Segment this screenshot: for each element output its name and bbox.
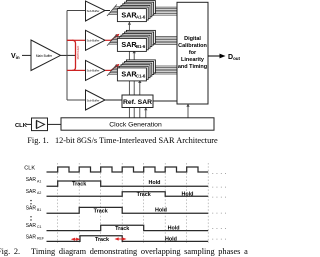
svg-text:Hold: Hold <box>182 191 194 197</box>
op-amp sub-buffer 2 <box>86 30 106 50</box>
wire to sub-buffer 1 <box>67 10 86 12</box>
svg-text:SAR: SAR <box>121 40 137 49</box>
svg-text:CLK: CLK <box>24 165 35 171</box>
svg-text:Track: Track <box>72 182 86 188</box>
svg-text:CLK: CLK <box>15 123 28 129</box>
waveform CLK <box>47 167 209 172</box>
SAR bank A stack <box>117 1 155 22</box>
clock wire to calibration <box>187 104 189 118</box>
wire Vin to main buffer <box>22 54 31 56</box>
wire red stub to sub-buffer 3 <box>72 69 86 71</box>
wire CLK to buffer <box>26 123 32 125</box>
waveform SAR C1 <box>47 225 209 230</box>
svg-text:B1: B1 <box>37 208 41 212</box>
waveform SAR A1 <box>47 181 209 186</box>
svg-text:SAR: SAR <box>121 70 137 79</box>
svg-text:and Timing: and Timing <box>178 64 207 70</box>
wire outputs stack B to calibration <box>146 36 177 44</box>
svg-text:Track: Track <box>115 226 129 232</box>
svg-text:Clock Generation: Clock Generation <box>109 122 162 129</box>
svg-text:Dout: Dout <box>228 54 241 61</box>
svg-text:Fig. 1. 12-bit 8GS/s Time-In: Fig. 1. 12-bit 8GS/s Time-Interleaved SA… <box>27 136 218 145</box>
svg-text:Linearity: Linearity <box>181 57 205 63</box>
svg-text:Hold: Hold <box>149 180 161 186</box>
svg-text:SAR: SAR <box>26 189 37 195</box>
svg-text:SAR: SAR <box>26 206 37 212</box>
svg-text:Fig. 2. Timing diagram demon: Fig. 2. Timing diagram demonstrating ove… <box>0 247 248 256</box>
svg-text:....: .... <box>212 210 229 216</box>
SAR bank C stack <box>117 60 155 81</box>
clock distribution wire to SAR B <box>133 51 135 118</box>
clock distribution wire to SAR C <box>139 80 141 117</box>
svg-text:....: .... <box>212 225 229 231</box>
op-amp sub-buffer 1 <box>86 1 106 21</box>
red timing arrow 1 <box>71 238 80 241</box>
svg-text:....: .... <box>212 236 229 242</box>
svg-text:SAR: SAR <box>26 234 37 240</box>
svg-text:Sub-Buffer: Sub-Buffer <box>87 98 100 102</box>
wire Ref SAR output <box>153 100 177 102</box>
svg-text:Digital: Digital <box>184 36 201 42</box>
red timing arrow 2 <box>115 237 127 240</box>
svg-text:A1-6: A1-6 <box>136 14 146 19</box>
svg-text:....: .... <box>212 170 229 176</box>
svg-text:for: for <box>189 50 197 56</box>
svg-text:Hold: Hold <box>155 208 167 214</box>
svg-text:C1: C1 <box>37 225 42 229</box>
waveform SAR A2 <box>47 192 209 196</box>
vertical ellipsis 1 <box>30 200 31 201</box>
wire sub-buffer2 to stack B (red arrow) <box>105 39 111 41</box>
vertical ellipsis 2 <box>30 216 31 217</box>
svg-text:Track: Track <box>94 208 108 214</box>
svg-text:C1-6: C1-6 <box>136 74 146 79</box>
digital calibration box U1 <box>177 2 208 104</box>
wire outputs stack A to calibration <box>146 7 177 15</box>
waveform SAR REF <box>47 236 209 242</box>
wire main buffer output <box>61 54 76 56</box>
SAR bank B stack <box>117 30 155 51</box>
svg-text:Ref. SAR: Ref. SAR <box>123 99 152 106</box>
svg-text:A1: A1 <box>37 179 41 183</box>
wire to sub-buffer 4 <box>67 99 86 101</box>
svg-text:A2: A2 <box>37 191 41 195</box>
svg-text:Track: Track <box>137 192 151 198</box>
svg-text:Sub-Buffer: Sub-Buffer <box>87 69 100 73</box>
wire fan into stack C <box>107 64 126 76</box>
wire outputs stack C to calibration <box>146 66 177 74</box>
clock distribution wire to SAR A <box>128 22 130 118</box>
waveform SAR B1 <box>47 207 209 213</box>
wire fan into stack A <box>107 5 126 17</box>
wire buffer to clock gen <box>48 123 62 125</box>
svg-text:....: .... <box>212 194 229 200</box>
clock generation box <box>61 118 214 130</box>
wire red critical route <box>67 40 76 70</box>
svg-text:REF: REF <box>37 237 44 241</box>
op-amp main buffer <box>31 40 61 71</box>
svg-text:Calibration: Calibration <box>178 43 207 49</box>
wire fan into stack B <box>107 34 126 46</box>
wire red stub to sub-buffer 2 <box>72 39 86 41</box>
svg-text:MATCHED: MATCHED <box>76 46 80 60</box>
Ref SAR box <box>122 95 153 108</box>
wire sub-buffer3 to stack C (red arrow) <box>105 69 111 71</box>
clock distribution wire to Ref SAR <box>145 108 147 118</box>
clock buffer box <box>32 118 48 131</box>
wire Dout arrow <box>208 55 221 57</box>
wire sub-buffer1 to stack A <box>105 10 110 12</box>
svg-text:B1-6: B1-6 <box>136 44 146 49</box>
svg-text:Track: Track <box>95 237 109 243</box>
svg-text:Main Buffer: Main Buffer <box>36 54 53 58</box>
wire sub-buffer4 to Ref SAR <box>105 99 122 101</box>
op-amp sub-buffer 3 <box>86 60 106 80</box>
svg-text:....: .... <box>212 184 229 190</box>
svg-text:SAR: SAR <box>121 10 137 19</box>
svg-text:Sub-Buffer: Sub-Buffer <box>87 39 100 43</box>
svg-text:Sub-Buffer: Sub-Buffer <box>87 9 100 13</box>
svg-text:Hold: Hold <box>165 237 177 243</box>
svg-text:Vin: Vin <box>11 53 20 60</box>
wire bus vertical grey <box>66 11 68 101</box>
dashed gridlines <box>58 163 209 243</box>
op-amp sub-buffer 4 <box>86 90 106 110</box>
svg-text:SAR: SAR <box>26 177 37 183</box>
svg-text:Hold: Hold <box>168 226 180 232</box>
svg-text:SAR: SAR <box>26 223 37 229</box>
